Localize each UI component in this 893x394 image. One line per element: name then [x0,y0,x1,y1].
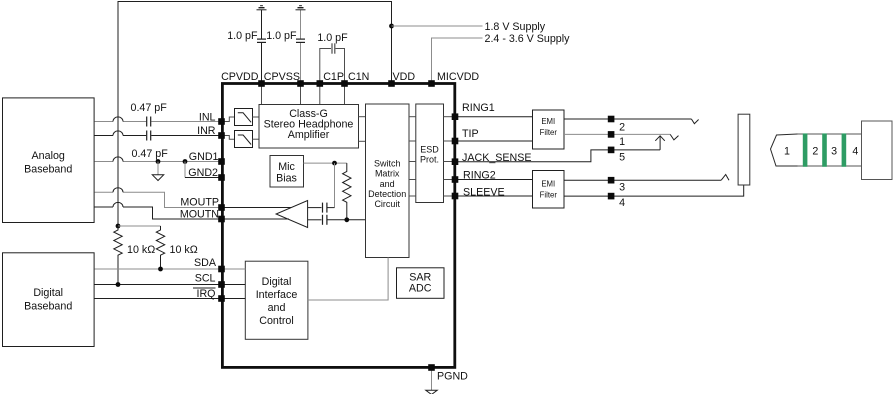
wire headset line 2 from EMI [564,118,691,120]
svg-text:Circuit: Circuit [374,199,400,209]
jack sense arrow [655,136,665,150]
block EMI Filter upper [533,110,565,149]
wire SCL from Digital Baseband [95,284,222,286]
wire GND2 branch [184,162,186,178]
svg-text:Baseband: Baseband [24,301,72,313]
wire IRQ to digital block [222,298,246,300]
block Digital Baseband [3,253,95,347]
svg-text:2.4 - 3.6 V Supply: 2.4 - 3.6 V Supply [485,33,571,45]
block Analog Baseband [3,98,95,223]
svg-text:1.0 pF: 1.0 pF [227,30,258,42]
svg-text:Switch: Switch [374,159,401,169]
wire SCL to digital block [222,284,246,286]
pin squares on IC top edge [258,80,435,87]
label pin IRQ with overline [193,288,216,300]
svg-text:CPVDD: CPVDD [221,71,259,83]
svg-text:SLEEVE: SLEEVE [463,186,505,198]
svg-text:10 kΩ: 10 kΩ [170,244,198,256]
wire Class-G to switch matrix L [359,116,366,118]
plug band 1 (green) [803,133,808,166]
svg-text:10 kΩ: 10 kΩ [127,244,155,256]
svg-text:MOUTN: MOUTN [180,209,219,221]
wire mic bias junction down to coupling cap [334,163,336,208]
wire TIP to EMI filter [455,140,533,142]
svg-text:C1P: C1P [323,71,344,83]
svg-text:Control: Control [259,315,293,327]
node junction mic bias to cap [332,161,337,166]
node junction R1 on SCL [116,282,121,287]
wire CPVSS bypass lead [300,43,302,84]
PGND pin stem [431,368,433,391]
svg-text:MOUTP: MOUTP [180,197,219,209]
svg-text:Matrix: Matrix [375,169,400,179]
capacitor C2 1.0 pF on CPVSS [296,39,305,42]
svg-text:GND2: GND2 [188,167,218,179]
svg-text:Mic: Mic [278,161,295,173]
svg-text:1.8 V Supply: 1.8 V Supply [485,21,546,33]
wire GND1 from Analog Baseband [95,161,222,163]
wire SDA to digital block [222,268,246,270]
pin square line 5 [608,147,615,154]
svg-text:Filter: Filter [540,128,558,137]
svg-text:1.0 pF: 1.0 pF [266,30,297,42]
node junction mic resistor bottom [344,217,349,222]
svg-text:Analog: Analog [32,150,65,162]
node junction pull-up rail [116,224,121,229]
wire to resistor R2 [118,225,161,227]
svg-text:C1N: C1N [348,71,369,83]
wire digital block to switch matrix [308,258,388,301]
wire INR to filter [222,136,236,140]
svg-text:4: 4 [852,146,858,158]
wire ESD to pin RING2 [444,179,456,181]
headset plug body [798,134,862,166]
svg-text:1.0 pF: 1.0 pF [317,32,348,44]
wire Class-G to switch matrix R [359,140,366,142]
node junction GND2 branch [183,159,188,164]
svg-text:IRQ: IRQ [196,288,215,300]
svg-text:2: 2 [812,146,818,158]
svg-text:CPVSS: CPVSS [264,71,300,83]
wire MOUTP from Analog Baseband [95,192,222,207]
capacitor C1 1.0 pF on CPVDD [257,39,266,42]
svg-text:SDA: SDA [194,257,217,269]
capacitor mic coupling upper [323,203,327,213]
pin square PGND on bottom edge [428,364,435,371]
svg-text:Bias: Bias [276,173,297,185]
filter block low-pass R [235,131,253,148]
block Mic Bias [270,156,304,188]
wire SLEEVE to EMI filter [455,195,533,197]
pin squares on IC left edge [218,118,225,302]
pin square line 4 [608,193,615,200]
pin square line 1 [608,131,615,138]
wire top rail from left vertical to VDD [118,2,392,227]
node junction VDD to 1.8V supply [389,24,394,29]
wire MOUTN into amp [222,218,290,220]
svg-text:1: 1 [784,146,790,158]
pin squares on IC right edge [452,113,459,199]
svg-text:JACK_SENSE: JACK_SENSE [462,152,532,164]
wire 2.4-3.6 V supply lead from MICVDD [432,38,483,84]
ground symbol at PGND [426,390,437,394]
pin square line 2 [608,116,615,123]
pin C1N stub inside [344,84,346,106]
wire filter R to Class-G [252,138,259,140]
svg-text:and: and [268,302,286,314]
wire amp lower output [308,219,322,221]
wire upper cap to mic bias vertical [328,207,335,209]
svg-text:SCL: SCL [195,273,216,285]
wire INL from Analog Baseband [95,121,222,123]
wire switch to ESD TIP [409,140,416,142]
svg-text:ESD: ESD [420,145,439,155]
pin square line 3 [608,177,615,184]
ground inverted GND at CPVSS cap [296,6,306,10]
wire hump MOUTP over vertical [113,188,123,193]
op-amp mic amplifier [276,201,308,228]
svg-text:0.47 pF: 0.47 pF [131,102,168,114]
pin CPVSS stub inside [300,84,302,106]
svg-text:GND1: GND1 [189,151,219,163]
pin C1P stub inside [319,84,321,106]
wire INR from Analog Baseband [95,135,222,137]
svg-text:1: 1 [619,136,625,148]
svg-text:Digital: Digital [33,287,63,299]
svg-text:Baseband: Baseband [24,164,72,176]
svg-text:TIP: TIP [462,128,479,140]
block EMI Filter lower [533,171,565,209]
svg-text:0.47 pF: 0.47 pF [132,148,169,160]
svg-text:ADC: ADC [409,283,432,295]
headset plug handle [862,121,893,180]
wire hump INR over vertical [113,131,123,136]
svg-text:Prot.: Prot. [420,155,439,165]
svg-text:Digital: Digital [262,276,292,288]
block Class-G amplifier [259,105,359,149]
svg-text:EMI: EMI [541,180,555,189]
svg-text:Interface: Interface [256,289,298,301]
wire headset line 1 from EMI [564,133,670,135]
capacitor 0.47 pF on INL [147,117,151,127]
block Digital Interface and Control [245,261,308,339]
pin CPVDD stub inside [261,84,263,106]
switch contact on line 3 [721,175,729,181]
wire hump INL over vertical [113,117,123,122]
ground inverted GND at CPVDD cap [257,6,267,10]
svg-text:3: 3 [619,182,625,194]
svg-text:Amplifier: Amplifier [288,129,330,141]
filter block low-pass L [235,109,253,126]
wire hump MOUTN over vertical [113,202,123,207]
wire RING1 to EMI filter [455,116,533,118]
main IC U1 outline [222,84,454,368]
wire MOUTN from Analog Baseband [95,207,222,219]
wire switch to ESD RING1 [409,116,416,118]
svg-text:EMI: EMI [541,117,555,126]
wire MOUTP into amp [222,207,292,209]
resistor R1 10 k [114,226,122,285]
block Switch Matrix and Detection Circuit [366,104,410,258]
wire JACK_SENSE [455,150,660,162]
svg-text:and: and [380,179,395,189]
wire ESD to pin TIP [444,140,456,142]
svg-text:MICVDD: MICVDD [437,71,479,83]
wire headset line 3 from EMI [564,179,721,181]
resistor R3 mic bias [343,163,351,220]
switch contact on line 1 [670,134,678,140]
wire amp upper output [308,207,322,209]
block ESD Prot. [416,104,444,203]
wire mic bias output [304,162,347,164]
svg-text:Filter: Filter [540,191,558,200]
wire SDA from Digital Baseband [95,268,222,270]
svg-text:INR: INR [197,125,216,137]
wire ESD to pin RING1 [444,116,456,118]
wire IRQ from Digital Baseband [95,298,222,300]
svg-text:5: 5 [619,152,625,164]
wire switch to ESD RING2 [409,179,416,181]
node junction R2 on SDA [158,267,163,272]
wire 1.8 V supply lead [392,25,483,27]
wire filter L to Class-G [252,116,259,118]
svg-text:Detection: Detection [368,189,406,199]
jack socket body [738,114,750,185]
capacitor mic coupling lower [323,215,327,225]
switch contact on line 2 [691,119,698,124]
svg-text:RING2: RING2 [463,170,496,182]
wire switch to ESD JACK_SENSE [409,161,416,163]
wire ESD to pin SLEEVE [444,195,456,197]
wire headset line 4 from EMI [564,185,744,196]
wire lower cap to switch matrix [328,219,366,221]
svg-text:PGND: PGND [437,371,468,383]
node junction ground stem on GND1 [156,159,161,164]
wire CPVDD bypass lead [261,43,263,84]
wire RING2 to EMI filter [455,179,533,181]
capacitor C3 1.0 pF flying cap C1P-C1N [320,43,345,83]
svg-text:3: 3 [831,146,837,158]
svg-text:2: 2 [619,122,625,134]
block SAR ADC [397,268,445,299]
svg-text:RING1: RING1 [462,102,495,114]
headset plug tip [771,134,798,166]
plug band 3 (green) [842,133,847,166]
ground symbol at GND1 [152,162,163,181]
wire ESD to pin JACK_SENSE [444,161,456,163]
capacitor 0.47 pF on INR [147,131,151,141]
resistor R2 10 k [156,226,164,269]
svg-text:INL: INL [199,112,216,124]
svg-text:4: 4 [619,197,625,209]
wire switch to ESD SLEEVE [409,195,416,197]
wire hump GND1 over vertical [113,157,123,162]
svg-text:VDD: VDD [393,71,416,83]
plug band 2 (green) [822,133,827,166]
wire INL to filter [222,117,236,122]
